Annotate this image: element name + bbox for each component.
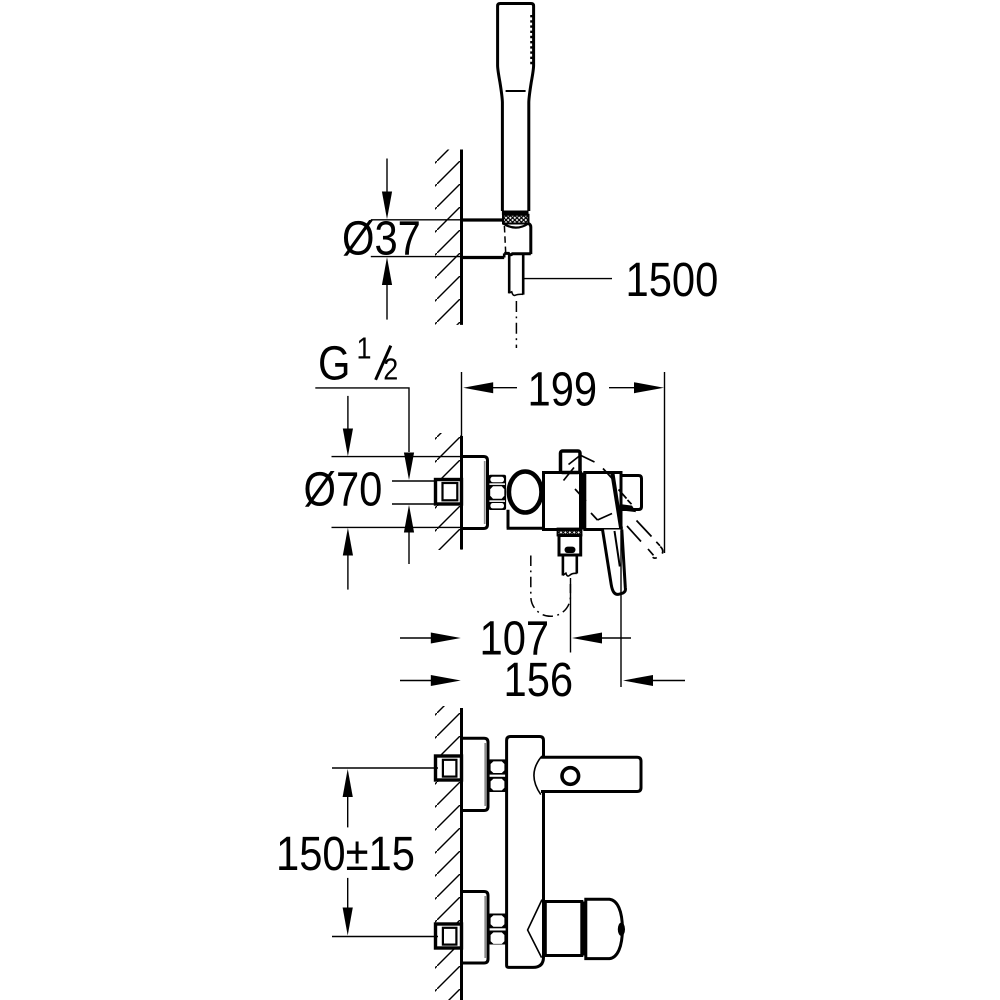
nut slot [565,547,576,553]
hose loop centreline dash-dot [531,556,571,617]
mixer body (front) [507,737,544,968]
outlet cone fold line [528,900,542,958]
divider band [580,473,585,530]
upper G1/2 nipple [436,756,462,780]
wall line (top view) [460,150,463,325]
wall line (bottom view) [460,708,463,1000]
dim 150±15 arrow down [347,878,349,908]
lower escutcheon [462,892,488,964]
hose outlet tube [563,555,577,576]
right block [585,473,621,530]
holder right edge [529,224,531,255]
dim 150±15 arrow up [347,797,349,828]
svg-text:G: G [318,336,350,390]
neck below ball [507,510,545,528]
spout hole [562,768,579,785]
svg-text:1: 1 [357,332,372,366]
lower G1/2 nipple [436,924,462,948]
svg-text:150±15: 150±15 [276,826,415,880]
dim Ø70 arrow line up [347,555,349,590]
dim G1/2 label [318,332,398,390]
dim G1/2 leader [315,388,409,452]
spout arm [541,757,641,791]
lever blade (solid, front edge) [610,474,623,529]
dim 1500 leader [524,278,612,280]
handle joint line [506,90,526,92]
hose nut body [559,536,581,556]
hex nut (side) [489,475,507,510]
escutcheon shading [484,461,486,524]
escutcheon (side) [462,457,488,529]
dim Ø37 arrow line down [386,159,388,193]
outlet divider [581,902,585,956]
hose centreline dash-dot [515,301,517,348]
dim Ø70 arrow line down [347,396,349,429]
dim G1/2 lower arrow [408,533,410,565]
lower hex nut [489,914,507,945]
lever shaft (solid, below body) [603,530,626,595]
dim 199 line + arrows [461,372,463,436]
wall hatch (top view) [435,150,462,325]
dim 150±15 extension lines [332,767,438,769]
holder bottom edge [504,253,531,254]
spout cone arc [534,757,541,795]
dashed lever (lowered position) [627,521,663,559]
shower hose [509,255,523,295]
ring bottom arc [503,224,529,228]
hidden hose dashed line in holder [504,226,505,253]
svg-text:1500: 1500 [626,252,719,306]
handle end dark band [502,211,529,215]
dim Ø37 arrow line up [386,285,388,320]
hub cap [621,476,642,510]
svg-text:199: 199 [528,362,598,416]
outlet cylinder 1 [545,902,582,956]
dim 107 arrows [400,637,433,639]
G1/2 nipple [436,480,462,505]
svg-text:Ø37: Ø37 [342,211,421,265]
lever wedge at hub [621,504,636,512]
dim Ø37 extension lines [371,219,462,221]
upper escutcheon [462,738,488,810]
mixer body (cartridge section) [544,473,581,530]
tube ragged end [563,573,577,576]
holder step [503,253,506,257]
holder bracket bottom edge [462,256,505,259]
wall hatch (bottom view) [435,706,462,1000]
wall line (middle view) [460,436,463,550]
upper hex nut [489,759,507,792]
ball joint [509,472,542,513]
dim G1/2 extension lines [392,480,436,482]
shower hose nut crosshatch [558,529,582,536]
dim 156 arrows [400,680,433,682]
top port [561,451,581,473]
hand shower head outline [498,4,534,212]
aerator tip [618,923,625,936]
dim Ø70 extension lines [332,456,462,458]
hose ragged end [509,292,523,296]
spray face dotted band [530,15,533,65]
svg-text:Ø70: Ø70 [304,462,383,516]
svg-text:156: 156 [504,652,574,706]
dim 156 extension line [620,531,622,687]
outlet cylinder 2 (aerator) [586,899,623,958]
dim 107 extension line [570,578,572,653]
dashed lever (raised position) [564,456,632,521]
wall hatch (middle view) [435,433,462,550]
holder bracket top edge [462,218,503,221]
hose nut crosshatch ring [503,215,529,224]
dim G1/2 slash [376,346,391,380]
